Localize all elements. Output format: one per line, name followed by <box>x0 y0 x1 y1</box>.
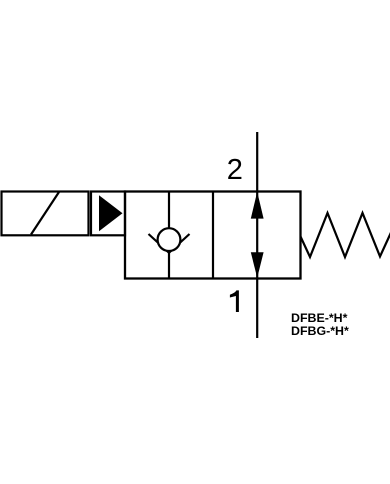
svg-text:2: 2 <box>227 154 243 186</box>
valve body outline <box>125 192 301 279</box>
check valve outlet line <box>168 251 170 279</box>
check valve inlet line <box>168 192 170 230</box>
port 1 label <box>230 290 239 312</box>
svg-text:DFBG-*H*: DFBG-*H* <box>291 324 349 338</box>
solenoid push arrow <box>99 195 123 231</box>
solenoid armature box <box>91 192 125 236</box>
solenoid coil slash <box>31 192 59 235</box>
check valve ball <box>158 228 181 251</box>
flow arrowhead up <box>251 192 264 219</box>
solenoid coil box <box>2 192 89 236</box>
svg-text:DFBE-*H*: DFBE-*H* <box>291 311 348 325</box>
flow path line (port 2 to port 1) <box>256 132 258 338</box>
check valve seat <box>149 234 190 253</box>
valve position divider <box>212 192 214 279</box>
spring <box>301 213 390 257</box>
flow arrowhead down <box>251 252 264 278</box>
